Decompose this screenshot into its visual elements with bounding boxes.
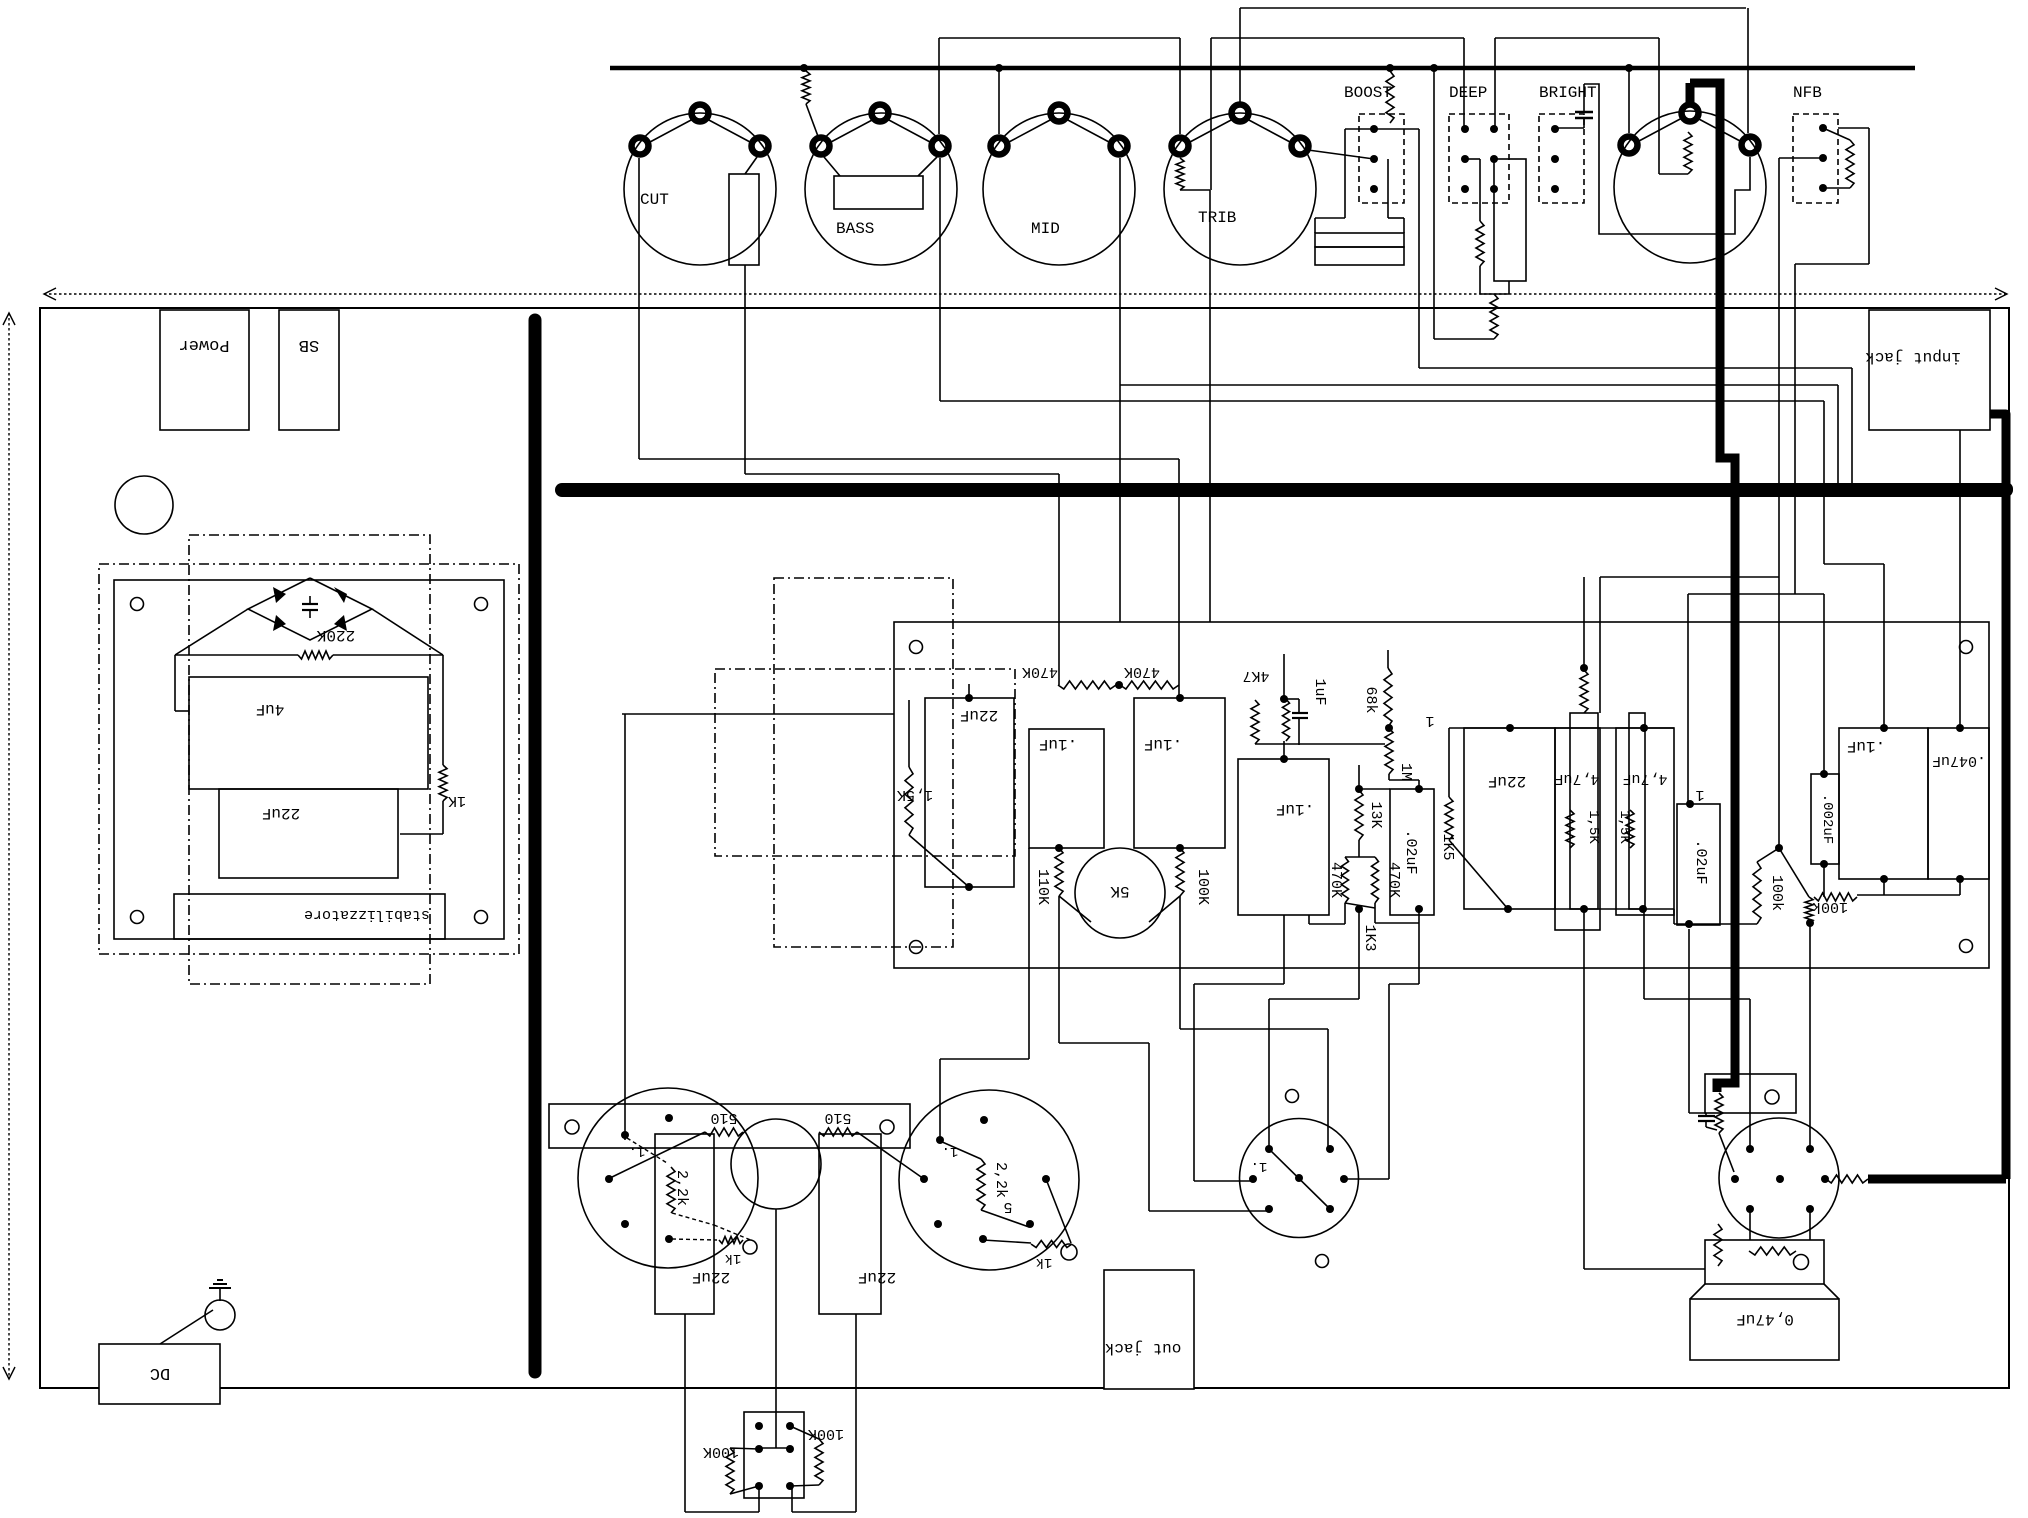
- svg-text:.02uF: .02uF: [1692, 839, 1709, 884]
- V4 pin: [1806, 1205, 1814, 1213]
- MID terminal left: [991, 138, 1008, 155]
- DEEP contact: [1490, 155, 1498, 163]
- wire 22uF A down: [684, 1314, 686, 1512]
- svg-text:1k: 1k: [1036, 1254, 1053, 1270]
- resistor 220K: [298, 651, 333, 659]
- svg-text:stabilizzatore: stabilizzatore: [304, 906, 430, 923]
- resistor 1k V2: [983, 1240, 1031, 1243]
- potentiometer CUT: [624, 113, 776, 265]
- BASS terminal top: [872, 105, 889, 122]
- resistor in bracket: [1749, 1247, 1796, 1255]
- junction: [800, 64, 808, 72]
- DC box: [99, 1344, 220, 1404]
- resistor 68k: [1387, 650, 1389, 668]
- wire bus to volume left: [1628, 68, 1630, 133]
- component rail: [1449, 727, 1674, 729]
- wire to V2 socket: [1028, 848, 1030, 1059]
- capacitor 4,7uF A inner: [1570, 713, 1598, 909]
- svg-text:1M: 1M: [1397, 763, 1414, 781]
- tube socket V4: [1719, 1118, 1839, 1238]
- V3 pin: [1326, 1205, 1334, 1213]
- V1 dashed links: [627, 1138, 667, 1163]
- wire 100K to 5K: [1149, 896, 1180, 922]
- svg-text:1.: 1.: [1251, 1158, 1268, 1174]
- vertical dimension line: [8, 313, 10, 1379]
- svg-text:SB: SB: [299, 335, 319, 354]
- junction: [1385, 724, 1393, 732]
- svg-text:510: 510: [824, 1109, 851, 1126]
- V3 pin: [1326, 1145, 1334, 1153]
- V3 center: [1295, 1174, 1303, 1182]
- bus junction blob: [1999, 482, 2013, 496]
- wire V2 pin link: [940, 1141, 981, 1159]
- resistor under DEEP: [1465, 158, 1480, 160]
- svg-text:1,5K: 1,5K: [897, 786, 933, 803]
- svg-text:1,5K: 1,5K: [1585, 810, 1601, 844]
- TRIB terminal chords: [1190, 119, 1233, 142]
- MID terminal top: [1051, 105, 1068, 122]
- junction: [1639, 905, 1647, 913]
- BRIGHT contact: [1551, 125, 1559, 133]
- wire NFB top: [1838, 127, 1869, 129]
- resistor NFB: [1846, 140, 1854, 188]
- resistor 13K: [1355, 790, 1363, 840]
- junction: [1386, 64, 1394, 72]
- horizontal dimension line: [44, 293, 2007, 295]
- wire 110K to 5K: [1059, 896, 1091, 922]
- DEEP contact: [1490, 125, 1498, 133]
- CUT terminal chords: [650, 119, 693, 142]
- wire NFB lower: [1688, 593, 1824, 595]
- svg-text:1: 1: [1425, 712, 1434, 729]
- junction: [1580, 905, 1588, 913]
- wire 4,7uF A to V4: [1583, 909, 1585, 1269]
- wire .02uF to cathode: [1688, 929, 1690, 1113]
- capacitor 4,7uF A: [1555, 728, 1600, 930]
- BOOST contact: [1370, 125, 1378, 133]
- resistor 1M: [1385, 728, 1393, 774]
- V3 hole: [1286, 1090, 1299, 1103]
- svg-text:1,5K: 1,5K: [1616, 810, 1632, 844]
- wire bridge right: [333, 654, 443, 656]
- wire DC to fuse: [160, 1310, 213, 1344]
- junction: [1880, 724, 1888, 732]
- svg-text:22uF: 22uF: [858, 1268, 896, 1286]
- junction: [965, 694, 973, 702]
- resistor 470K vert: [1345, 856, 1375, 858]
- BASS terminal right: [932, 138, 949, 155]
- filter dashed box A: [774, 578, 953, 947]
- switch DEEP box: [1449, 114, 1509, 203]
- ground symbol: [219, 1288, 221, 1301]
- BASS terminal left: [813, 138, 830, 155]
- plate hole: [475, 911, 488, 924]
- V2 pin: [934, 1220, 942, 1228]
- potentiometer MID: [983, 113, 1135, 265]
- V4 lower bracket: [1705, 1240, 1824, 1284]
- transformer outline B: [189, 535, 430, 984]
- resistor in CUT: [729, 174, 759, 265]
- junction: [1956, 875, 1964, 883]
- mounting plate: [114, 580, 504, 939]
- V3 pin: [1340, 1175, 1348, 1183]
- resistor 1k V1: [719, 1237, 743, 1244]
- resistor 510 B: [819, 1128, 857, 1136]
- resistor 100k left: [1753, 862, 1761, 924]
- resistor in volume pot: [1684, 132, 1692, 174]
- plate hole: [475, 598, 488, 611]
- resistor bus to BOOST: [1386, 71, 1394, 123]
- svg-text:.047uF: .047uF: [1932, 752, 1986, 769]
- junction: [1625, 64, 1633, 72]
- svg-text:DEEP: DEEP: [1449, 84, 1487, 102]
- junction: [1685, 920, 1693, 928]
- capacitor .1uF: [1134, 698, 1225, 848]
- svg-text:1: 1: [1695, 786, 1704, 803]
- resistor 1,5K B: [1626, 810, 1634, 848]
- wire 13K top: [1358, 765, 1360, 789]
- resistor 510 A: [705, 1128, 743, 1136]
- contact: [786, 1482, 794, 1490]
- wire MID-right run: [1120, 384, 1838, 386]
- wire 22uF B down: [855, 1314, 857, 1512]
- capacitor 22uF cathode A: [655, 1134, 714, 1314]
- capacitor .1uF right: [1839, 728, 1928, 879]
- plate hole: [131, 598, 144, 611]
- rectifier bridge: [248, 578, 372, 640]
- volume terminal top: [1682, 105, 1699, 122]
- volume terminal left: [1621, 137, 1638, 154]
- resistor 1,5K A: [1566, 810, 1574, 848]
- filter dashed box B: [715, 669, 1015, 856]
- switch BOOST box: [1359, 114, 1404, 203]
- svg-text:input jack: input jack: [1865, 348, 1961, 366]
- wire 1K5 diag: [1449, 840, 1508, 909]
- NFB contact: [1819, 184, 1827, 192]
- svg-text:1k: 1k: [725, 1250, 742, 1266]
- transformer outline A: [99, 564, 519, 954]
- resistor 470K: [1058, 681, 1116, 689]
- junction: [1775, 844, 1783, 852]
- wire 470K left lead: [1344, 903, 1346, 924]
- capacitor .002uF: [1811, 774, 1839, 864]
- resistor 2,2k V1: [667, 1167, 675, 1213]
- svg-text:Power: Power: [178, 335, 229, 354]
- capacitor BRIGHT: [1575, 111, 1593, 114]
- svg-text:100K: 100K: [808, 1425, 844, 1442]
- wire 1K down: [442, 801, 444, 834]
- CUT terminal top: [692, 105, 709, 122]
- TRIB terminal right: [1292, 138, 1309, 155]
- bracket hole: [565, 1120, 579, 1134]
- tube bracket bar: [549, 1104, 910, 1148]
- capacitor under DEEP: [1494, 159, 1526, 281]
- svg-text:22uF: 22uF: [1488, 772, 1526, 790]
- out jack box: [1104, 1270, 1194, 1389]
- V2 pin: [936, 1136, 944, 1144]
- resistor on bus to BASS: [802, 71, 810, 104]
- svg-text:.1uF: .1uF: [1847, 737, 1885, 755]
- wire V2 right pin diag: [1046, 1179, 1071, 1243]
- wire CUT left terminal down: [638, 158, 640, 459]
- DEEP contact: [1490, 185, 1498, 193]
- resistor in TRIB: [1176, 158, 1184, 190]
- capacitor 4uF box: [189, 677, 428, 789]
- wire BASS right terminal down: [939, 158, 941, 401]
- svg-text:100K: 100K: [1194, 869, 1211, 905]
- wire 1M down: [1388, 774, 1390, 780]
- potentiometer volume: [1614, 111, 1766, 263]
- svg-text:5: 5: [1003, 1198, 1012, 1215]
- svg-text:0,47uF: 0,47uF: [1736, 1310, 1794, 1328]
- bracket hole: [880, 1120, 894, 1134]
- wire BASS to TRIB: [939, 37, 1180, 39]
- trimmer 5K: [1075, 848, 1165, 938]
- wire NFB middle: [1779, 157, 1823, 159]
- svg-text:BOOST: BOOST: [1344, 84, 1392, 102]
- wire 100k to V4: [1809, 923, 1811, 1148]
- junction: [965, 883, 973, 891]
- BRIGHT contact: [1551, 155, 1559, 163]
- wire 510B: [857, 1132, 924, 1179]
- switch BRIGHT box: [1539, 114, 1584, 203]
- svg-text:510: 510: [710, 1109, 737, 1126]
- V1 pin: [621, 1131, 629, 1139]
- plate hole: [131, 911, 144, 924]
- thick wire output: [1868, 1175, 2006, 1184]
- wire BASS-right run: [940, 400, 1824, 402]
- MID terminal chords: [1009, 119, 1052, 142]
- V1 pin: [605, 1175, 613, 1183]
- svg-text:.02uF: .02uF: [1402, 829, 1419, 874]
- NFB contact: [1819, 154, 1827, 162]
- wire to V1 socket: [624, 714, 626, 1140]
- switch box 100K: [744, 1412, 804, 1498]
- resistor to output: [1826, 1175, 1868, 1183]
- V4 pin: [1746, 1145, 1754, 1153]
- capacitor 22uF main: [1464, 728, 1555, 909]
- contact: [755, 1445, 763, 1453]
- V2 pin: [980, 1116, 988, 1124]
- capacitor 22uF box: [219, 789, 398, 878]
- resistor V4 down: [1714, 1224, 1722, 1266]
- svg-text:4uF: 4uF: [256, 700, 285, 718]
- wire TRIB right to BOOST: [1308, 150, 1374, 159]
- resistor cathode V4: [1715, 1093, 1723, 1133]
- capacitor .1uF: [1029, 729, 1104, 848]
- DEEP contact: [1461, 125, 1469, 133]
- resistor 100k right: [1805, 897, 1813, 923]
- thick wire from volume pot: [1686, 83, 1695, 104]
- svg-text:BASS: BASS: [836, 220, 874, 238]
- svg-text:2,2k: 2,2k: [673, 1170, 690, 1206]
- wire 510A: [610, 1132, 705, 1178]
- V4 pin: [1731, 1175, 1739, 1183]
- V4 pin: [1821, 1175, 1829, 1183]
- V2 pin: [1026, 1220, 1034, 1228]
- V3 pin: [1265, 1145, 1273, 1153]
- V2 pin: [979, 1235, 987, 1243]
- TRIB terminal top: [1232, 105, 1249, 122]
- junction: [1430, 64, 1438, 72]
- svg-text:TRIB: TRIB: [1198, 209, 1236, 227]
- wire 1,5K to 22uF: [909, 835, 969, 887]
- wire DEEP lower: [1480, 293, 1509, 295]
- svg-text:MID: MID: [1031, 220, 1060, 238]
- junction: [1176, 694, 1184, 702]
- resistor above 4,7uF: [1580, 670, 1588, 713]
- svg-text:22uF: 22uF: [692, 1268, 730, 1286]
- svg-text:100K: 100K: [703, 1443, 739, 1460]
- junction: [1506, 724, 1514, 732]
- capacitor .02uF B: [1677, 804, 1720, 925]
- svg-text:1K3: 1K3: [1361, 924, 1378, 951]
- svg-text:.1uF: .1uF: [1039, 735, 1077, 753]
- junction: [995, 64, 1003, 72]
- component rail bottom: [1555, 908, 1674, 910]
- wire pilot down: [775, 1209, 777, 1448]
- tube socket V3: [1240, 1119, 1359, 1238]
- SB box: [279, 310, 339, 430]
- board hole: [910, 641, 923, 654]
- junction: [1686, 800, 1694, 808]
- stabilizzatore box: [174, 894, 445, 939]
- chassis frame: [40, 308, 2009, 1388]
- junction: [1880, 875, 1888, 883]
- wire TRIB top to volume pot: [1240, 7, 1746, 9]
- V4 pin: [1806, 1145, 1814, 1153]
- bracket hole: [1765, 1090, 1779, 1104]
- svg-text:4K7: 4K7: [1242, 667, 1269, 684]
- TRIB terminal left: [1172, 138, 1189, 155]
- svg-text:1.: 1.: [629, 1143, 646, 1159]
- V3 diagonal: [1269, 1149, 1330, 1209]
- svg-text:BRIGHT: BRIGHT: [1539, 84, 1597, 102]
- svg-text:.1uF: .1uF: [1276, 800, 1314, 818]
- svg-text:470K: 470K: [1385, 862, 1402, 898]
- wire caps bottom bar: [1857, 894, 1960, 896]
- thick wire right edge: [1944, 410, 2006, 419]
- svg-text:100k: 100k: [1812, 898, 1848, 915]
- svg-text:CUT: CUT: [640, 191, 669, 209]
- wire 100K down: [1179, 896, 1181, 1029]
- NFB contact: [1819, 124, 1827, 132]
- svg-text:4,7uF: 4,7uF: [1622, 770, 1667, 787]
- top bus wire: [610, 66, 1915, 71]
- main board: [894, 622, 1989, 968]
- contact: [786, 1445, 794, 1453]
- capacitor 22uF board: [925, 698, 1014, 887]
- svg-text:470K: 470K: [1124, 663, 1160, 680]
- potentiometer TRIB: [1164, 113, 1316, 265]
- BRIGHT contact: [1551, 185, 1559, 193]
- junction: [1415, 785, 1423, 793]
- junction: [1415, 905, 1423, 913]
- capacitor 1uF: [1283, 654, 1285, 699]
- fuse holder: [205, 1300, 235, 1330]
- capacitor 22uF cathode B: [819, 1134, 881, 1314]
- junction: [1504, 905, 1512, 913]
- junction: [1820, 860, 1828, 868]
- BOOST contact: [1370, 155, 1378, 163]
- volume terminal right: [1742, 137, 1759, 154]
- wire input jack down: [1959, 430, 1961, 728]
- wire 22uF stub: [968, 684, 970, 698]
- V4 bracket: [1705, 1074, 1796, 1113]
- resistor DEEP return: [1490, 294, 1498, 339]
- junction: [1820, 770, 1828, 778]
- junction: [1115, 681, 1123, 689]
- V4 center: [1776, 1175, 1784, 1183]
- wire to V3 grid: [1283, 915, 1285, 984]
- wire 1uF bar: [1255, 743, 1385, 745]
- board hole: [1960, 641, 1973, 654]
- capacitor 4,7uF B: [1616, 728, 1674, 915]
- resistor 100K: [1176, 848, 1184, 896]
- wire .002 down: [1823, 864, 1825, 897]
- svg-text:1K: 1K: [448, 792, 466, 809]
- wire 470K right lead: [1374, 903, 1376, 923]
- wire bus to MID left: [998, 68, 1000, 134]
- svg-text:470K: 470K: [1327, 862, 1344, 898]
- svg-text:220K: 220K: [316, 626, 355, 644]
- V3 pin: [1265, 1205, 1273, 1213]
- wire 4,7uF B to V3: [1643, 909, 1645, 999]
- BOOST bracket: [1345, 128, 1419, 130]
- resistor 1K5: [1448, 728, 1450, 797]
- DEEP contact: [1461, 155, 1469, 163]
- resistor 100K left: [726, 1448, 734, 1494]
- volume terminal chords: [1639, 118, 1682, 141]
- V4 pin: [1746, 1205, 1754, 1213]
- wire volume right terminal: [1584, 84, 1750, 234]
- BOOST contact: [1370, 185, 1378, 193]
- wire 5K down: [1058, 896, 1060, 1043]
- wire board feed: [622, 713, 894, 715]
- switch NFB box: [1793, 114, 1838, 203]
- wire CUT-right run: [745, 473, 1059, 475]
- resistor 1,5K board: [908, 700, 910, 767]
- chassis hole: [115, 476, 173, 534]
- capacitor .02uF: [1390, 789, 1434, 915]
- capacitor cathode V4: [1698, 1115, 1715, 1117]
- svg-text:5K: 5K: [1110, 882, 1130, 900]
- wire bridge left: [175, 654, 298, 656]
- V3 pin: [1249, 1175, 1257, 1183]
- tube socket V1: [578, 1088, 758, 1268]
- CUT terminal right: [752, 138, 769, 155]
- Power box: [160, 310, 249, 430]
- svg-text:out jack: out jack: [1105, 1339, 1182, 1357]
- capacitor 4,7uF B inner: [1629, 713, 1645, 909]
- V1 pin: [665, 1235, 673, 1243]
- wire V2 diag: [981, 1210, 1029, 1227]
- junction: [1956, 724, 1964, 732]
- svg-text:100k: 100k: [1768, 875, 1785, 911]
- svg-text:.002uF: .002uF: [1819, 794, 1835, 844]
- resistor 1K: [439, 765, 447, 801]
- svg-text:22uF: 22uF: [262, 804, 300, 822]
- V3 hole: [1316, 1255, 1329, 1268]
- pilot socket: [731, 1119, 821, 1209]
- wire BOOST to right: [1418, 129, 1420, 368]
- wire CUT right terminal down: [744, 265, 746, 474]
- wire TRIB resistor to DEEP: [1211, 37, 1464, 39]
- BASS terminal chords: [831, 119, 874, 142]
- ground bus horizontal: [562, 483, 2006, 497]
- resistor box in BASS: [834, 176, 923, 209]
- junction: [1806, 919, 1814, 927]
